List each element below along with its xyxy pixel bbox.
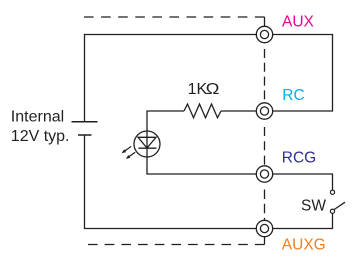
svg-text:RC: RC [282, 87, 304, 104]
dashed enclosure right: AUX to RC [264, 49, 266, 103]
battery B1 plate short [78, 134, 92, 136]
LED D1 circle [134, 131, 160, 157]
wire resistor to RC terminal [221, 110, 256, 112]
wire LED top to resistor [147, 111, 184, 131]
svg-text:RCG: RCG [282, 150, 316, 167]
terminal RCG [256, 166, 272, 182]
terminal AUX [256, 26, 272, 42]
switch SW blade [334, 202, 345, 209]
wire RCG to switch [273, 174, 333, 190]
svg-text:12V typ.: 12V typ. [11, 128, 70, 145]
terminal AUXG [256, 220, 272, 236]
svg-text:Ω: Ω [206, 81, 220, 98]
svg-text:1K: 1K [188, 81, 208, 98]
LED D1 cathode bar [139, 147, 157, 149]
dashed enclosure right: RCG to AUXG [264, 190, 266, 220]
wire LED cathode to RCG terminal [147, 157, 256, 174]
dashed enclosure top [84, 16, 265, 18]
LED D1 triangle [138, 137, 156, 148]
switch SW top contact [330, 190, 334, 194]
switch SW bottom contact [330, 209, 334, 213]
wire battery+ to AUX (top rail) [85, 35, 257, 122]
dashed enclosure right: corner stub [264, 17, 266, 26]
wire switch to AUXG [273, 213, 333, 228]
svg-text:AUX: AUX [282, 13, 315, 30]
LED D1 light arrow 2 [126, 152, 135, 159]
dashed enclosure right: RC to RCG [264, 127, 266, 166]
svg-text:SW: SW [301, 197, 326, 214]
terminal RC [256, 103, 272, 119]
svg-text:Internal: Internal [11, 109, 64, 126]
battery B1 plate long [72, 121, 98, 123]
resistor R1 1K [184, 104, 221, 118]
LED D1 light arrow 1 [122, 146, 132, 153]
wire battery- to AUXG (bottom rail) [85, 135, 257, 229]
dashed enclosure bottom [88, 244, 265, 246]
svg-text:AUXG: AUXG [282, 237, 326, 254]
dashed enclosure right: bottom corner stub [264, 237, 266, 245]
LED D1 anode wire through [146, 131, 148, 157]
wire jumper AUX to RC (right bracket) [273, 35, 333, 112]
